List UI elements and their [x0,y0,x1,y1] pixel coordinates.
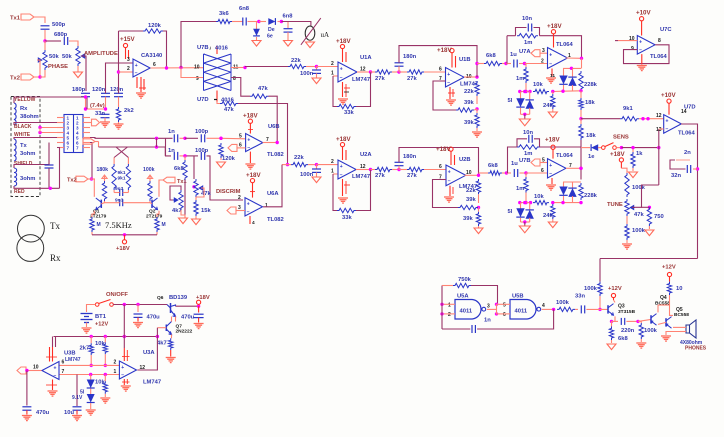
diode D vertical [256,22,258,30]
wire pin8 out [231,78,250,97]
svg-text:228k: 228k [584,82,598,88]
svg-text:−: − [247,145,250,151]
svg-text:BLACK: BLACK [14,124,32,130]
bus2 [99,146,157,148]
wire C1 to node [44,30,46,41]
svg-text:2: 2 [127,66,130,72]
power +15V U4 [123,43,127,47]
ground U3B [48,390,58,392]
port arrow right of J1 [90,122,92,124]
ground battery [86,323,88,328]
svg-text:1m: 1m [524,151,532,157]
ground 4k7 [179,218,188,224]
pin stub 6 [57,142,64,144]
node diode top [257,20,260,23]
resistor 10k row1 [533,89,549,93]
capacitor 500p [41,25,50,27]
svg-text:U7B: U7B [197,45,209,51]
svg-text:100k: 100k [143,167,155,173]
pin stub 4 [57,132,64,134]
capacitor 100n row1 [316,67,318,70]
coil Tx [14,139,16,161]
svg-text:+18V: +18V [610,151,625,158]
svg-text:9: 9 [196,76,199,82]
resistor 10k ps a [104,337,106,343]
svg-text:U6B: U6B [268,124,280,130]
resistor 100k q4 [638,320,641,322]
resistor 100k tune a [625,173,629,197]
diode pair row2 box [563,181,581,183]
svg-text:LM747: LM747 [352,174,370,180]
svg-text:3: 3 [127,57,130,63]
svg-text:750k: 750k [458,277,472,283]
svg-text:6k8: 6k8 [174,166,184,172]
op-amp U7D TL064 [664,115,682,134]
fb box row2 legs [508,147,518,173]
svg-text:U5B: U5B [512,294,524,300]
wire q3 emitter [612,316,616,321]
wire U7D pin13 [659,128,664,130]
svg-text:180n: 180n [403,54,417,60]
capacitor 10u [73,406,82,408]
cable shield dashed box [11,97,40,197]
resistor 47k b [220,101,238,105]
power +18V U7A [551,30,555,34]
wire 10u branch [76,375,78,407]
svg-text:U7D: U7D [197,97,209,103]
wire q5 emitter [673,326,680,328]
ground 120k u6 [220,158,222,160]
wire to U1A pin2 [317,66,339,68]
wire 18k a down [580,110,582,119]
pot 4k7 [179,190,183,210]
ground 24k row2 [552,219,554,222]
U7A gnd pin [551,69,553,77]
wire U6A out [263,165,282,207]
svg-text:TL064: TL064 [556,153,574,159]
svg-text:27k: 27k [407,76,417,82]
svg-text:10: 10 [194,65,200,71]
svg-text:−: − [549,171,552,177]
bottom row row2 [553,202,581,204]
svg-text:4011: 4011 [460,309,473,315]
wire 6k8 right [502,63,506,65]
capacitor 33n [101,113,110,115]
wire U2B out [465,174,479,176]
svg-text:12: 12 [656,113,662,119]
svg-text:47k: 47k [201,191,211,197]
svg-text:2: 2 [448,312,451,318]
resistor 9k1 [620,117,639,121]
svg-text:180k: 180k [97,167,109,173]
wire 120k left [119,30,144,32]
svg-text:22k: 22k [294,155,304,161]
svg-text:+12V: +12V [608,286,622,292]
port Tx1 b [163,177,175,183]
svg-text:180p: 180p [72,87,86,93]
svg-text:RED: RED [14,189,25,195]
osc bottom rail [91,232,93,235]
svg-text:10k: 10k [95,380,105,386]
pin stub 7 [57,147,64,149]
resistor 9k1 R [126,164,130,190]
svg-text:SENS: SENS [613,135,629,141]
U1B fb box [433,81,456,110]
svg-text:6k8: 6k8 [488,163,498,169]
wire tune wiper [632,185,659,207]
wire U7A out down [581,58,583,68]
resistor 33k row1 [337,104,356,108]
wire 9k1 row [600,118,620,120]
capacitor 180p [81,92,90,94]
ground 10u [76,410,78,414]
svg-text:+: + [340,164,343,170]
wire 47k a right [269,96,278,142]
svg-text:9k1: 9k1 [623,106,633,112]
svg-text:1e: 1e [588,154,595,160]
wire pin5R bus [90,137,173,140]
svg-text:18k: 18k [586,133,596,139]
wire 6k8 row2 right [502,172,507,174]
wire row2 in [282,164,291,166]
svg-text:BC558: BC558 [674,312,689,318]
U5A in vert [441,286,443,330]
node tx2b [90,177,93,180]
power +10V U7C [640,17,644,21]
power +18V osc [124,235,126,240]
svg-text:33k: 33k [344,110,354,116]
svg-text:100k: 100k [632,228,646,234]
power +18V U2B [449,147,453,151]
capacitor 10n row1 [527,24,529,32]
svg-text:2k2: 2k2 [124,108,134,114]
capacitor 120n a [101,92,110,94]
capacitor 100p b [200,152,202,160]
U1A feedback right [356,72,371,107]
ground 470u c [26,410,28,414]
wire 1n b left [166,138,172,156]
wire q2 emitter [157,211,159,217]
ground tune [626,240,628,243]
svg-text:+18V: +18V [437,47,452,54]
wire yellow [14,97,87,109]
wire 9k1 right [639,118,664,120]
wire q7 base rail [156,335,159,338]
svg-text:3ohm: 3ohm [20,176,35,182]
ground 750 [648,226,650,229]
4016 bottom stem [216,91,218,102]
port Tx1 [21,14,34,20]
capacitor 470u c [22,406,31,408]
wire 1u right [519,63,525,65]
resistor 100k R [148,181,152,201]
resistor 3k6 [216,19,232,23]
svg-text:TL082: TL082 [267,217,284,223]
svg-text:24k: 24k [543,213,553,219]
svg-text:U7B: U7B [519,158,531,164]
wire 180n row2 fb [399,148,479,176]
svg-text:100n: 100n [300,71,314,77]
resistor 6k8 row1 [477,63,484,65]
capacitor 1n a [173,134,175,142]
power U3A stem [123,337,125,349]
capacitor 220n [612,320,619,322]
resistor 39k b row2 [478,208,480,212]
ground U7B [546,184,556,186]
svg-text:+: + [447,72,450,78]
pin stub 2 [57,122,64,124]
U1A below pins [342,82,344,97]
ground U2A [338,197,348,199]
svg-text:228k: 228k [584,193,598,199]
resistor fb row1 [456,108,474,112]
pin stub 5 [57,137,64,139]
svg-text:+18V: +18V [436,146,451,153]
U7C fb box [624,45,670,64]
svg-text:100k: 100k [644,328,658,334]
wire amplitude wiper down [81,56,86,91]
resistor 22k row2 [291,162,308,166]
diode D horizontal [259,21,266,23]
potentiometer PHASE 50k [43,50,47,70]
power +18V U2A [340,143,344,147]
resistor 120k feedback [143,29,163,33]
wire 10 down [670,295,674,315]
wire 47k b right [238,104,288,165]
rail mid [54,336,158,338]
svg-text:2: 2 [541,59,544,65]
capacitor 1n b [173,152,175,160]
svg-text:−: − [247,210,250,216]
ground U1B [446,99,456,101]
ground 1k [632,168,634,171]
ground 4k7 q7 [170,350,172,357]
svg-text:7.5KHz: 7.5KHz [105,220,132,230]
wire U1A out [357,71,371,73]
zener pair row1 [518,90,521,93]
ground U7A [546,77,556,79]
svg-text:470u: 470u [36,410,50,416]
svg-text:15k: 15k [201,208,211,214]
wire phase bottom [40,70,45,77]
svg-text:BT1: BT1 [95,314,107,320]
svg-text:PHASE: PHASE [48,64,68,70]
svg-text:1n: 1n [484,318,491,324]
4016 top stem [216,46,218,55]
wire q6 emitter [175,317,177,322]
svg-text:120n: 120n [92,87,106,93]
U3B below [52,380,54,391]
U2A feedback wire [333,174,337,211]
svg-text:470u: 470u [147,315,161,321]
resistor 27k b row2 [399,169,407,171]
resistor 24k row2 [551,201,554,204]
svg-text:100k: 100k [632,185,646,191]
ground amplitude [77,66,79,72]
ground zener row1 [519,119,530,126]
svg-text:6k8: 6k8 [618,336,628,342]
node 24k row1 [551,90,554,93]
svg-text:De: De [268,27,275,33]
op-amp U3A LM747 [119,361,136,379]
resistor 4k7 q7 [169,338,173,350]
wire osc top rail [181,22,216,68]
resistor 1k [632,148,634,152]
U1B below pins [449,87,451,99]
wire C2 to amplitude pot [69,41,78,46]
svg-text:6n8: 6n8 [283,14,294,20]
node 1m row2 [524,201,527,204]
ground D vertical [252,41,261,47]
wire U3B vplus [52,337,54,348]
svg-text:U3B: U3B [64,351,76,357]
ground 100n row1 [312,78,321,84]
wire U7A out [566,57,582,59]
wire Tx2 to phase wiper [34,60,40,77]
port tag osc [83,139,95,144]
svg-text:120n: 120n [110,87,124,93]
svg-text:39k: 39k [464,120,474,126]
resistor 24k row1 [552,92,554,95]
resistor 10k ps b [104,375,106,382]
ground U2B [444,196,454,198]
capacitor 6n8 b [287,22,289,29]
wire 1u row2 right [520,172,527,174]
fb box row2 [517,139,527,147]
wire U1A pin1 [333,75,338,77]
svg-text:1k: 1k [636,151,643,157]
ground 10k b [104,394,106,397]
capacitor 2n [696,167,699,170]
wire U6B out [263,142,278,144]
wire 180p to 7.4v node [85,97,87,99]
svg-text:1m: 1m [516,186,524,192]
ground 100n row2 [312,177,321,183]
nand U5B [510,300,536,320]
power +18V U1B [450,49,454,53]
power +10V U7D [667,99,671,103]
wire 47k pot [196,188,204,197]
node pin11 [243,66,246,69]
svg-text:uA: uA [321,31,330,39]
resistor 22k row1 [288,64,306,68]
power +18V U7B [551,145,555,149]
svg-text:2N2222: 2N2222 [176,329,193,335]
wire 4k7 bottom [181,210,185,218]
U6B gnd [249,152,251,163]
wire 22k-39k row2 [478,194,480,203]
op-amp U6A TL082 [245,198,263,216]
wire 180n up fb [399,46,477,64]
svg-text:Q4: Q4 [660,295,667,301]
svg-text:6n8: 6n8 [239,6,250,12]
resistor emitter L [90,217,94,232]
wire 15k gnd [195,216,197,219]
wire row2 mid [185,155,198,157]
wire 9n3 b [104,201,106,203]
op-amp U7C TL064 [637,36,655,55]
svg-text:10k: 10k [95,341,105,347]
svg-text:TL082: TL082 [267,152,284,158]
ground 6k8 audio [611,340,613,343]
svg-text:Tx2: Tx2 [67,178,77,184]
svg-text:Rx: Rx [50,253,61,263]
wire phase top [44,41,46,50]
wire U7C pin10 [618,40,637,42]
bus nodes [155,137,158,140]
wire 10k a down [104,354,106,365]
wire to U2A pin2 [317,164,339,166]
U7 4016 switch block [204,54,232,91]
wire audio rail [600,258,698,260]
ground meter [309,40,311,42]
svg-text:U5A: U5A [457,294,469,300]
transistor Q2 [151,200,153,208]
wire 22k row2 right [308,164,317,166]
fb box row1 top [516,28,527,36]
resistor 220k row2 [579,183,583,200]
wire 18k b top [580,119,582,124]
resistor 18k b [579,124,583,140]
wire q7 base [157,327,166,329]
svg-text:750: 750 [654,214,664,220]
wire U7B out [566,167,581,169]
wire to q4 base [638,319,651,321]
svg-text:+: + [135,63,138,69]
svg-text:BD139: BD139 [169,295,188,301]
svg-text:Tx: Tx [50,221,60,231]
wire U7D out [681,124,698,259]
svg-text:8: 8 [233,76,236,82]
svg-text:−: − [135,71,138,77]
capacitor 6n8 a [242,18,244,26]
svg-text:+18V: +18V [545,137,560,144]
port arrow U6A pin3 [227,207,236,214]
svg-text:YELLOW: YELLOW [14,97,36,103]
node U4 out [165,66,168,69]
svg-text:−: − [340,172,343,178]
svg-text:10: 10 [33,365,39,371]
svg-text:47k: 47k [634,212,644,218]
svg-text:10: 10 [676,286,682,292]
svg-text:1: 1 [448,303,451,309]
capacitor 9n3 b [119,199,121,206]
wire 120n a bottom [105,97,107,109]
svg-text:4: 4 [252,220,255,226]
wire to meter [281,22,311,27]
svg-text:2: 2 [331,61,334,67]
op-amp U2A LM747 [338,160,356,179]
wire 100p a right [207,137,222,139]
resistor fb row2 [458,205,478,209]
wire 22k to node [306,66,317,68]
resistor 100k audio [557,307,575,311]
capacitor 680p [63,37,65,45]
bottom node row1 [553,90,581,93]
wire 33n right [586,308,608,310]
power +18V U6B [248,119,252,123]
capacitor 33n audio [580,305,582,313]
wire to diode [581,147,590,149]
capacitor 470u b [198,306,200,312]
svg-text:6: 6 [503,312,506,318]
svg-text:3k6: 3k6 [219,11,229,17]
resistor 220k row1 [579,71,583,91]
resistor 750 [648,206,651,209]
svg-text:M: M [97,222,101,228]
wire 6k8 down [184,180,186,215]
ground 6n8 b [284,41,293,47]
